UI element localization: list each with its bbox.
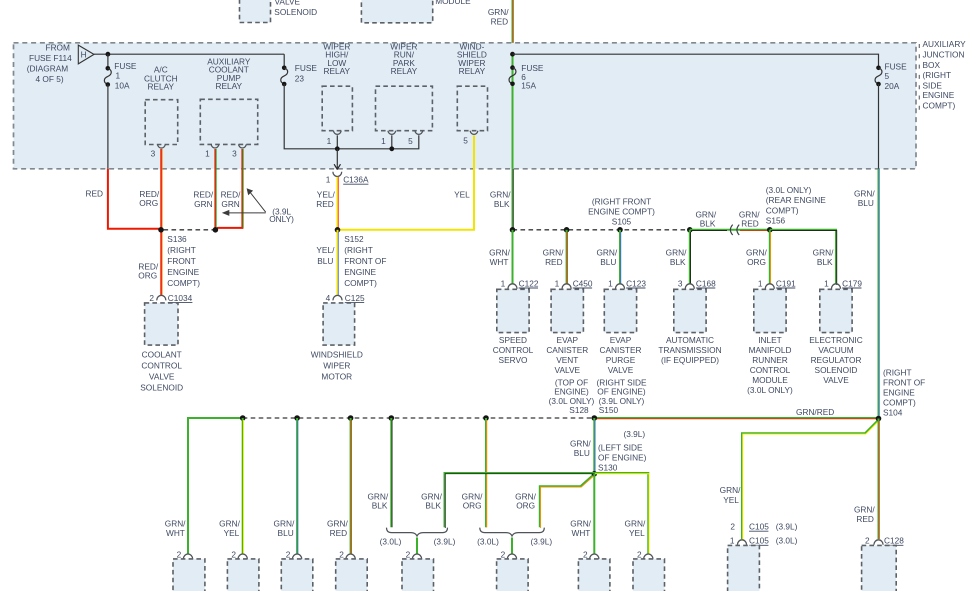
svg-text:GRN/: GRN/: [570, 518, 591, 528]
pin 1 of wiper high/low relay: [327, 131, 342, 149]
node: splice at GRN/RED drop: [564, 227, 570, 233]
svg-text:AUXILIARY: AUXILIARY: [923, 39, 967, 49]
svg-text:SIDE: SIDE: [923, 80, 943, 90]
svg-text:FUSE: FUSE: [114, 61, 137, 71]
svg-text:S156: S156: [766, 216, 786, 226]
svg-text:MODULE: MODULE: [435, 0, 471, 6]
svg-text:COOLANT: COOLANT: [142, 349, 182, 359]
label: (3.0L ONLY) (REAR ENGINE COMPT) S156: [766, 185, 826, 226]
connector C179 pin 1: [824, 278, 862, 288]
svg-text:4: 4: [326, 293, 331, 303]
svg-text:BLK: BLK: [817, 257, 833, 267]
svg-text:(3.9L): (3.9L): [434, 536, 456, 546]
svg-text:5: 5: [408, 136, 413, 146]
svg-text:PURGE: PURGE: [606, 355, 636, 365]
node: splice at GRN/BLU drop: [617, 227, 623, 233]
svg-text:2: 2: [637, 550, 642, 560]
component: speed control servo: [493, 289, 534, 365]
svg-text:WIPER: WIPER: [323, 360, 350, 370]
svg-text:RELAY: RELAY: [148, 82, 175, 92]
svg-text:FUSE: FUSE: [885, 61, 908, 71]
svg-text:EVAP: EVAP: [610, 335, 632, 345]
svg-text:MODULE: MODULE: [752, 375, 788, 385]
svg-text:WHT: WHT: [490, 257, 509, 267]
wire GRN/RED into junction box: [488, 0, 513, 54]
svg-text:FRONT: FRONT: [167, 256, 196, 266]
svg-text:C123: C123: [626, 278, 646, 288]
svg-text:S150: S150: [599, 405, 619, 415]
wire GRN/BLK - GRN/RED link to S156: [690, 209, 770, 230]
wire GRN/WHT from S105 to C122: [489, 230, 512, 284]
svg-text:VALVE: VALVE: [275, 0, 301, 7]
svg-text:(RIGHT: (RIGHT: [883, 367, 912, 377]
svg-text:JUNCTION: JUNCTION: [923, 50, 965, 60]
svg-text:ORG: ORG: [463, 501, 482, 511]
node: splice S152: [335, 227, 387, 288]
svg-text:23: 23: [295, 73, 305, 83]
svg-text:2: 2: [583, 550, 588, 560]
svg-text:3: 3: [232, 148, 237, 158]
label: (TOP OF ENGINE) (3.0L ONLY) S128: [549, 377, 595, 415]
svg-text:C179: C179: [842, 278, 862, 288]
connector pin 2 at GRN/WHT S130 box: [583, 550, 599, 560]
node: junction GRN wire and right feed bus: [510, 52, 515, 57]
wire RED from fuse 1: [85, 169, 161, 229]
label: (RIGHT FRONT OF ENGINE COMPT) S104: [883, 367, 925, 417]
svg-text:C168: C168: [696, 278, 716, 288]
node: bus dot GRN/YEL: [240, 415, 246, 421]
svg-text:(IF EQUIPPED): (IF EQUIPPED): [661, 355, 719, 365]
svg-text:MANIFOLD: MANIFOLD: [749, 345, 792, 355]
svg-text:RELAY: RELAY: [216, 81, 243, 91]
svg-text:VALVE: VALVE: [149, 371, 175, 381]
svg-text:ORG: ORG: [516, 501, 535, 511]
wire GRN/BLU drop: [274, 418, 298, 554]
svg-text:VALVE: VALVE: [555, 365, 581, 375]
svg-text:GRN/: GRN/: [720, 485, 741, 495]
svg-text:VALVE: VALVE: [823, 375, 849, 385]
svg-text:1: 1: [758, 278, 763, 288]
svg-text:BLK: BLK: [700, 219, 716, 229]
svg-text:2: 2: [149, 293, 154, 303]
svg-text:GRN/: GRN/: [165, 518, 186, 528]
junction box label separator: [918, 44, 920, 110]
svg-text:BLU: BLU: [600, 257, 616, 267]
svg-text:GRN/RED: GRN/RED: [796, 407, 834, 417]
arrow symbol H (from fuse F114): [78, 45, 94, 64]
svg-text:COMPT): COMPT): [344, 278, 377, 288]
svg-text:RED: RED: [316, 199, 334, 209]
wire GRN/ORG (3.9L) from S130 to brace 2: [515, 476, 593, 529]
svg-text:BLK: BLK: [670, 257, 686, 267]
svg-text:3: 3: [678, 278, 683, 288]
svg-text:COMPT): COMPT): [923, 101, 956, 111]
svg-text:CONTROL: CONTROL: [493, 345, 534, 355]
svg-text:CONTROL: CONTROL: [141, 360, 182, 370]
wire GRN/RED drop: [327, 418, 351, 554]
wire YEL/RED from C136A to S152: [316, 177, 338, 230]
wire GRN/RED to C450: [543, 230, 568, 284]
svg-text:GRN: GRN: [221, 199, 239, 209]
svg-text:20A: 20A: [885, 81, 900, 91]
svg-text:SOLENOID: SOLENOID: [140, 382, 183, 392]
connector pin 2 at GRN/RED box: [339, 550, 355, 560]
wire: splice bus S105: [513, 229, 690, 231]
wire GRN/WHT from S130: [570, 474, 594, 554]
svg-text:10A: 10A: [115, 81, 130, 91]
svg-text:GRN/: GRN/: [274, 518, 295, 528]
svg-text:(3.0L): (3.0L): [477, 536, 499, 546]
wire YEL/BLU from S152 to C125: [316, 230, 338, 296]
svg-text:(3.0L): (3.0L): [380, 536, 402, 546]
svg-text:VALVE: VALVE: [608, 365, 634, 375]
svg-text:S136: S136: [167, 234, 187, 244]
svg-text:(RIGHT FRONT: (RIGHT FRONT: [592, 196, 651, 206]
svg-text:RED: RED: [330, 528, 348, 538]
svg-text:2: 2: [406, 550, 411, 560]
wire GRN/RED bus right segment: [594, 407, 878, 419]
node: splice S136: [158, 227, 200, 288]
svg-text:GRN: GRN: [194, 199, 212, 209]
annotation (3.9L ONLY) with arrows: [222, 188, 294, 224]
svg-text:(RIGHT: (RIGHT: [167, 245, 196, 255]
svg-text:COMPT): COMPT): [766, 205, 799, 215]
node: splice junction at RED/GRN wires: [213, 227, 219, 233]
svg-text:5: 5: [463, 136, 468, 146]
svg-text:YEL: YEL: [224, 528, 240, 538]
svg-text:4 OF 5): 4 OF 5): [36, 74, 64, 84]
relay: wiper high/low relay: [322, 41, 352, 130]
pin 5 of windshield wiper relay: [463, 131, 478, 146]
svg-text:1: 1: [730, 536, 735, 546]
node: splice S105 at GRN/WHT: [510, 227, 516, 233]
connector C105 pins 2 / 1: [730, 521, 798, 545]
svg-text:YEL: YEL: [723, 495, 739, 505]
wire GRN/BLU to C123: [596, 230, 620, 284]
svg-text:BLK: BLK: [494, 199, 510, 209]
wire GRN/BLU from fuse 5 to S104: [854, 169, 879, 418]
svg-text:1: 1: [116, 71, 121, 81]
svg-text:GRN/: GRN/: [813, 247, 834, 257]
connector C136A pin 1: [326, 172, 369, 185]
wire GRN/BLK (3.0L) to brace 1: [367, 418, 392, 527]
pin 5 of wiper run/park relay: [408, 131, 423, 146]
svg-text:COMPT): COMPT): [167, 278, 200, 288]
fuse F1 10A: [104, 54, 137, 169]
svg-text:1: 1: [327, 136, 332, 146]
svg-text:CANISTER: CANISTER: [600, 345, 642, 355]
svg-text:H: H: [81, 50, 87, 60]
svg-text:VENT: VENT: [556, 355, 578, 365]
svg-text:C450: C450: [573, 278, 593, 288]
brace: 3.0L/3.9L pair 1: [380, 528, 456, 554]
svg-text:ORG: ORG: [138, 271, 157, 281]
svg-text:YEL/: YEL/: [316, 245, 335, 255]
svg-text:(3.9L): (3.9L): [776, 521, 798, 531]
connector pin 2 at brace 1 box: [406, 550, 422, 560]
svg-text:TRANSMISSION: TRANSMISSION: [658, 345, 721, 355]
svg-text:2: 2: [286, 550, 291, 560]
wire GRN/YEL drop: [219, 418, 243, 554]
svg-text:2: 2: [730, 521, 735, 531]
svg-text:BLU: BLU: [317, 256, 333, 266]
svg-text:YEL: YEL: [454, 189, 470, 199]
node: bus dot GRN/ORG: [483, 415, 489, 421]
connector C125 pin 4: [326, 293, 365, 303]
svg-text:RED: RED: [491, 17, 509, 27]
svg-text:FRONT OF: FRONT OF: [344, 256, 386, 266]
svg-text:BLU: BLU: [278, 528, 294, 538]
node: splice S156: [767, 227, 773, 233]
svg-text:YEL: YEL: [629, 528, 645, 538]
wire GRN/YEL from S104 to C105: [720, 420, 880, 540]
svg-text:S130: S130: [598, 462, 618, 472]
node: bus junction below wiper run/park: [389, 146, 394, 151]
svg-text:RED: RED: [856, 514, 874, 524]
component: bottom box 1 (GRN/WHT): [173, 559, 205, 591]
wire GRN/YEL from S130: [594, 473, 649, 554]
component: bottom box 7 (GRN/WHT S130): [578, 559, 610, 591]
svg-text:ONLY): ONLY): [269, 214, 294, 224]
pin 1 of wiper run/park relay: [381, 131, 396, 149]
wire GRN/RED from S104 to C128: [854, 419, 879, 540]
svg-text:WINDSHIELD: WINDSHIELD: [311, 349, 363, 359]
component: bottom box 5 (brace 1): [402, 559, 434, 591]
svg-text:RED: RED: [85, 188, 103, 198]
svg-text:GRN/: GRN/: [489, 247, 510, 257]
component box (partial): module: [361, 0, 471, 23]
node: bus dot GRN/BLU S130 drop: [592, 415, 598, 421]
junction box label: AUXILIARY JUNCTION BOX (RIGHT SIDE ENGINE COMPT): [923, 39, 967, 111]
svg-text:(RIGHT: (RIGHT: [344, 245, 373, 255]
wire GRN/BLK from S156 to C179: [770, 230, 837, 285]
svg-text:2: 2: [865, 536, 870, 546]
svg-text:BLU: BLU: [858, 198, 874, 208]
component: box at C105: [728, 545, 760, 591]
svg-text:SPEED: SPEED: [499, 335, 527, 345]
svg-text:ENGINE: ENGINE: [923, 90, 955, 100]
svg-text:RUNNER: RUNNER: [752, 355, 788, 365]
svg-text:ENGINE: ENGINE: [883, 387, 915, 397]
svg-text:FUSE: FUSE: [295, 63, 318, 73]
svg-text:(3.9L): (3.9L): [623, 429, 645, 439]
component: bottom box 8 (GRN/YEL S130): [633, 559, 665, 591]
svg-text:3: 3: [151, 148, 156, 158]
svg-text:C105: C105: [749, 521, 769, 531]
fuse F23: [281, 54, 318, 86]
svg-text:FRONT OF: FRONT OF: [883, 377, 925, 387]
component: box at C128: [862, 545, 897, 591]
svg-text:(3.9L): (3.9L): [530, 536, 552, 546]
component: evap canister vent valve: [546, 289, 588, 375]
svg-text:ELECTRONIC: ELECTRONIC: [809, 335, 862, 345]
svg-text:5: 5: [885, 71, 890, 81]
svg-text:INLET: INLET: [758, 335, 782, 345]
svg-text:ORG: ORG: [139, 198, 158, 208]
svg-text:(3.0L ONLY): (3.0L ONLY): [766, 185, 812, 195]
component: bottom box 6 (brace 2): [497, 559, 528, 591]
svg-text:1: 1: [608, 278, 613, 288]
svg-text:2: 2: [231, 550, 236, 560]
wire GRN/RED bus left segment: [188, 418, 243, 554]
connector pin 2 at GRN/YEL box: [231, 550, 247, 560]
svg-text:GRN/: GRN/: [488, 7, 509, 17]
connector C450 pin 1: [555, 278, 593, 288]
wire: splice link S136: [164, 229, 216, 231]
svg-text:RELAY: RELAY: [324, 66, 351, 76]
relay: A/C clutch relay: [144, 65, 178, 145]
component: bottom box 2 (GRN/YEL): [227, 559, 259, 591]
component: electronic vacuum regulator solenoid valve: [809, 289, 862, 385]
svg-text:EVAP: EVAP: [557, 335, 579, 345]
connector pin 2 at GRN/YEL S130 box: [637, 550, 653, 560]
svg-text:CANISTER: CANISTER: [546, 345, 588, 355]
svg-text:RELAY: RELAY: [459, 66, 486, 76]
svg-text:BOX: BOX: [923, 60, 941, 70]
fuse F5 20A: [875, 61, 907, 169]
svg-text:ORG: ORG: [747, 257, 766, 267]
svg-text:S128: S128: [569, 405, 589, 415]
svg-text:ENGINE: ENGINE: [167, 267, 199, 277]
wire GRN/BLU (3.9L) to S130: [570, 418, 645, 474]
svg-text:C191: C191: [776, 278, 796, 288]
connector C168 pin 3: [678, 278, 716, 288]
svg-text:BLK: BLK: [425, 501, 441, 511]
svg-text:BLU: BLU: [574, 448, 590, 458]
svg-text:(REAR ENGINE: (REAR ENGINE: [766, 195, 826, 205]
svg-text:15A: 15A: [521, 81, 536, 91]
svg-text:RELAY: RELAY: [391, 66, 418, 76]
svg-text:VACUUM: VACUUM: [818, 345, 853, 355]
connector C128 pin 2: [865, 536, 904, 546]
svg-text:REGULATOR: REGULATOR: [811, 355, 862, 365]
component: bottom box 3 (GRN/BLU): [281, 559, 313, 591]
symbol: inline connector ((: [730, 225, 739, 235]
wire: C136A exit with arrow: [334, 149, 340, 170]
node: bus dot GRN/BLU: [294, 415, 300, 421]
svg-text:1: 1: [381, 136, 386, 146]
svg-text:MOTOR: MOTOR: [321, 371, 352, 381]
component: evap canister purge valve: [600, 289, 642, 375]
node: bus dot GRN/RED: [348, 415, 354, 421]
svg-text:1: 1: [824, 278, 829, 288]
wire YEL from windshield wiper relay pin 5: [338, 135, 475, 229]
wire RED/ORG from A/C relay pin 3 to C1034: [138, 149, 162, 295]
fuse F6 15A on GRN wire: [509, 54, 544, 169]
node: splice S104: [876, 416, 882, 422]
svg-text:RED: RED: [741, 219, 759, 229]
svg-text:C125: C125: [345, 293, 365, 303]
junction box: Auxiliary Junction Box: [14, 43, 917, 169]
svg-text:SERVO: SERVO: [499, 355, 528, 365]
svg-text:RED: RED: [545, 257, 563, 267]
wire GRN/BLK from fuse 6 to S105: [490, 169, 513, 230]
label: (RIGHT SIDE OF ENGINE) (3.9L ONLY) S150: [596, 377, 647, 415]
connector pin 2 at GRN/BLU box: [286, 550, 302, 560]
component: automatic transmission (if equipped): [658, 289, 721, 365]
connector C1034 pin 2: [149, 293, 192, 303]
wire: fuse 23 to wiper relay pins bus: [284, 84, 419, 149]
component: inlet manifold runner control module: [747, 289, 793, 395]
svg-text:S152: S152: [344, 234, 364, 244]
svg-text:CONTROL: CONTROL: [750, 365, 791, 375]
wire: splice bus dashed middle: [243, 417, 595, 419]
relay: wiper run/park relay: [376, 41, 433, 130]
connector pin 2 at GRN/WHT box: [177, 550, 193, 560]
wire: right feed bus to fuse 5: [513, 54, 879, 67]
wire GRN/ORG from S156 to C191: [746, 230, 771, 284]
svg-text:GRN/: GRN/: [543, 247, 564, 257]
pin 1 of aux coolant pump relay: [205, 144, 219, 158]
svg-text:(RIGHT: (RIGHT: [923, 70, 952, 80]
wire GRN/BLK to C168: [666, 230, 691, 284]
svg-text:S105: S105: [612, 216, 632, 226]
svg-text:ENGINE COMPT): ENGINE COMPT): [588, 206, 655, 216]
svg-text:1: 1: [501, 278, 506, 288]
svg-text:ENGINE: ENGINE: [344, 267, 376, 277]
svg-text:GRN/: GRN/: [625, 518, 646, 528]
svg-text:(3.0L): (3.0L): [776, 536, 798, 546]
svg-text:C128: C128: [884, 536, 904, 546]
svg-text:2: 2: [177, 550, 182, 560]
svg-text:1: 1: [555, 278, 560, 288]
svg-text:FUSE F114: FUSE F114: [29, 53, 72, 63]
svg-text:C105: C105: [749, 536, 769, 546]
wire: main feed bus from H: [94, 53, 284, 55]
wire GRN/ORG (3.0L) to brace 2: [462, 418, 487, 527]
svg-text:2: 2: [339, 550, 344, 560]
relay: auxiliary coolant pump relay: [200, 56, 257, 144]
wire GRN/WHT drop 1: [165, 518, 186, 538]
svg-text:GRN/: GRN/: [219, 518, 240, 528]
svg-text:WHT: WHT: [571, 528, 590, 538]
svg-text:OF ENGINE): OF ENGINE): [598, 452, 647, 462]
svg-text:GRN/: GRN/: [327, 518, 348, 528]
connector C123 pin 1: [608, 278, 646, 288]
svg-text:GRN/: GRN/: [666, 247, 687, 257]
node: splice S130: [592, 442, 647, 476]
svg-text:BLK: BLK: [372, 501, 388, 511]
svg-text:FROM: FROM: [46, 42, 71, 52]
svg-text:GRN/: GRN/: [746, 247, 767, 257]
node: bus junction below wiper high/low: [335, 146, 340, 151]
svg-text:C1034: C1034: [168, 293, 193, 303]
svg-text:COMPT): COMPT): [883, 397, 916, 407]
svg-text:C122: C122: [519, 278, 539, 288]
svg-text:(3.0L ONLY): (3.0L ONLY): [747, 385, 793, 395]
label: (RIGHT FRONT ENGINE COMPT) S105: [588, 196, 655, 226]
relay: windshield wiper relay: [457, 41, 488, 130]
svg-text:GRN/: GRN/: [596, 247, 617, 257]
svg-text:SOLENOID: SOLENOID: [274, 7, 317, 17]
wire RED/GRN from aux pump relay pin 1: [193, 149, 216, 230]
svg-text:(DIAGRAM: (DIAGRAM: [27, 64, 69, 74]
node: splice at GRN/BLK drop: [687, 227, 693, 233]
svg-text:(LEFT SIDE: (LEFT SIDE: [598, 442, 643, 452]
pin 3 of aux coolant pump relay: [232, 144, 246, 158]
connector C122 pin 1: [501, 278, 539, 288]
wire RED/GRN from aux pump relay pin 3: [217, 149, 243, 228]
connector pin 2 at brace 2 box: [501, 550, 517, 560]
svg-text:WHT: WHT: [166, 528, 185, 538]
svg-text:GRN/: GRN/: [854, 189, 875, 199]
wire GRN/BLK (3.9L) from S130 to brace 1: [421, 473, 595, 528]
component: bottom box 4 (GRN/RED): [336, 559, 368, 591]
node: bus dot GRN/BLK: [389, 415, 395, 421]
svg-text:1: 1: [205, 148, 210, 158]
svg-text:2: 2: [501, 550, 506, 560]
pin 3 of A/C clutch relay: [151, 145, 166, 159]
